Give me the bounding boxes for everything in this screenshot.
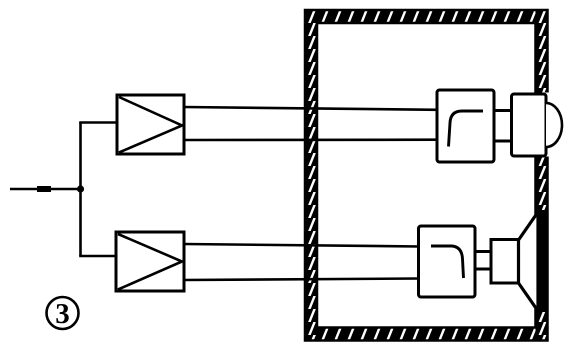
woofer magnet box xyxy=(491,240,519,284)
amplifier A1 (top) xyxy=(117,95,184,154)
input wire xyxy=(10,188,81,191)
wire trunk vertical xyxy=(79,123,82,257)
amplifier A2 (bottom) xyxy=(116,232,184,291)
wire A1 output upper xyxy=(184,107,438,110)
wire filter to woofer lower xyxy=(475,268,492,271)
node (junction dot) xyxy=(77,185,84,192)
wire A2 output lower xyxy=(184,279,420,281)
tweeter driver (magnet box) xyxy=(512,94,547,156)
wire filter to tweeter lower xyxy=(494,140,513,143)
wire to amplifier A1 input xyxy=(79,121,117,124)
input polarity dash xyxy=(37,186,51,192)
woofer cone xyxy=(519,212,539,311)
figure label circled 3 xyxy=(47,297,79,330)
high-pass filter box (tweeter network) xyxy=(437,90,494,162)
svg-text:3: 3 xyxy=(55,298,70,330)
tweeter dome xyxy=(546,103,562,147)
wall solid section at woofer mouth xyxy=(535,210,549,312)
low-pass filter box (woofer network) xyxy=(419,226,476,297)
enclosure wall (hatched cabinet) xyxy=(305,10,548,341)
wire to amplifier A2 input xyxy=(79,255,116,258)
wire A1 output lower xyxy=(184,138,438,141)
wire filter to woofer upper xyxy=(475,250,492,253)
wall gap for tweeter xyxy=(534,93,551,157)
wire filter to tweeter upper xyxy=(494,109,513,112)
wire A2 output upper xyxy=(184,244,420,247)
